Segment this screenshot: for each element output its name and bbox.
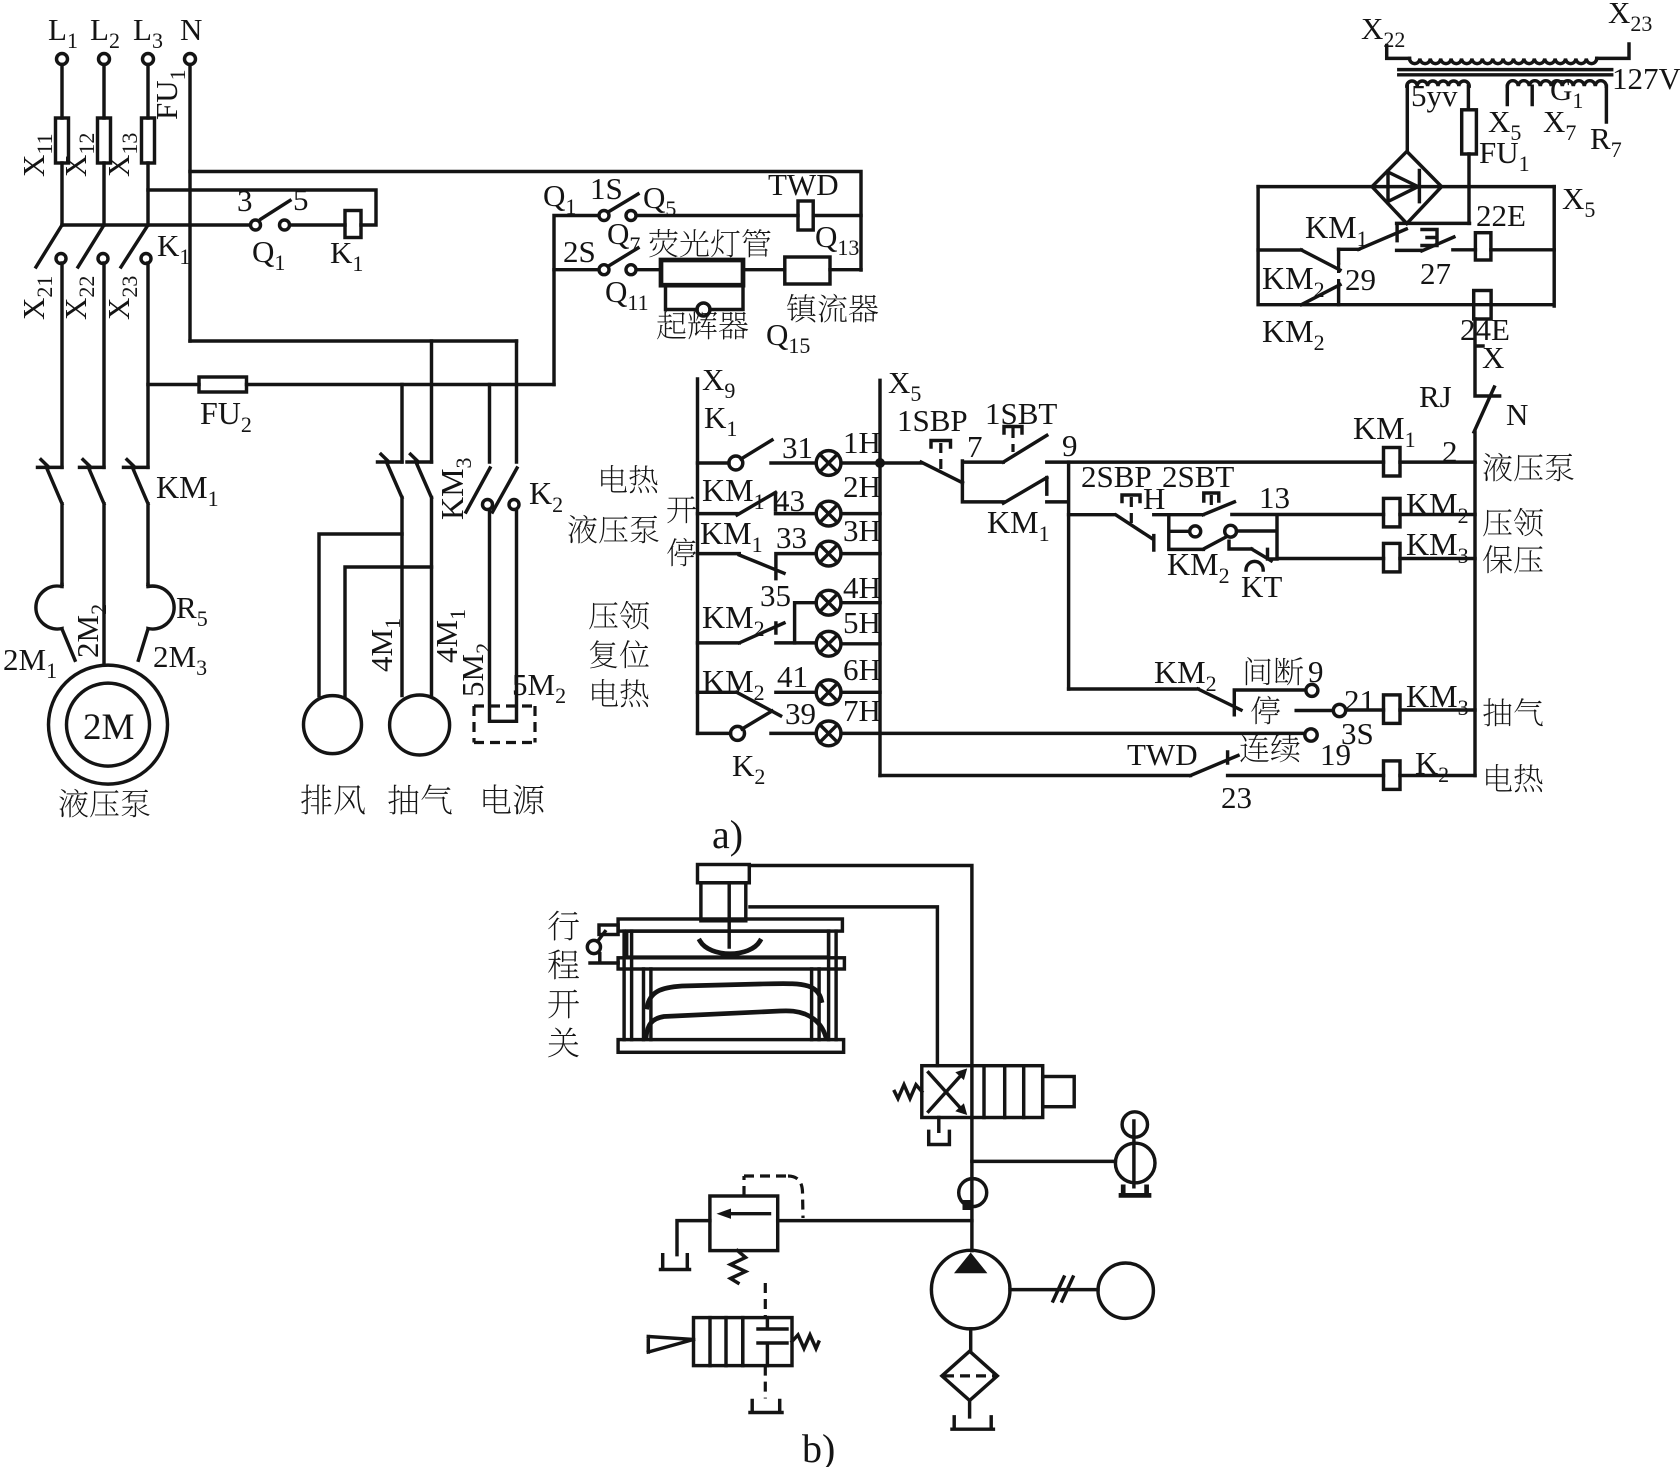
svg-text:31: 31: [782, 430, 813, 465]
svg-text:13: 13: [1259, 480, 1290, 515]
svg-text:21: 21: [1344, 683, 1375, 718]
svg-text:33: 33: [776, 520, 807, 555]
svg-text:29: 29: [1345, 262, 1376, 297]
svg-text:RJ: RJ: [1419, 379, 1452, 414]
svg-text:9: 9: [1308, 654, 1324, 689]
svg-text:41: 41: [777, 659, 808, 694]
svg-text:127V: 127V: [1612, 61, 1680, 96]
svg-text:1H: 1H: [843, 425, 881, 460]
svg-text:1SBT: 1SBT: [985, 396, 1057, 431]
svg-text:23: 23: [1221, 780, 1252, 815]
svg-text:2S: 2S: [563, 234, 596, 269]
svg-text:24E: 24E: [1460, 312, 1510, 347]
svg-text:TWD: TWD: [1127, 737, 1198, 772]
svg-text:b): b): [802, 1426, 835, 1467]
svg-text:5H: 5H: [843, 605, 881, 640]
svg-text:3: 3: [237, 183, 253, 218]
svg-text:2SBP: 2SBP: [1081, 459, 1152, 494]
svg-text:2H: 2H: [843, 469, 881, 504]
svg-text:a): a): [712, 812, 743, 857]
svg-text:27: 27: [1420, 256, 1451, 291]
svg-text:N: N: [1506, 397, 1528, 432]
svg-text:22E: 22E: [1476, 198, 1526, 233]
svg-text:19: 19: [1320, 737, 1351, 772]
svg-text:2M: 2M: [83, 707, 134, 748]
svg-text:N: N: [180, 12, 202, 47]
svg-text:7H: 7H: [843, 693, 881, 728]
svg-text:2: 2: [1442, 434, 1458, 469]
svg-text:5yv: 5yv: [1411, 78, 1458, 113]
svg-text:9: 9: [1062, 428, 1078, 463]
svg-text:1S: 1S: [590, 171, 623, 206]
svg-text:39: 39: [785, 696, 816, 731]
svg-text:2SBT: 2SBT: [1162, 459, 1234, 494]
svg-text:KT: KT: [1241, 569, 1282, 604]
svg-text:TWD: TWD: [768, 167, 839, 202]
svg-text:3H: 3H: [843, 513, 881, 548]
svg-text:43: 43: [774, 483, 805, 518]
svg-text:7: 7: [967, 429, 983, 464]
svg-text:35: 35: [760, 578, 791, 613]
svg-text:4H: 4H: [843, 570, 881, 605]
svg-text:1SBP: 1SBP: [897, 403, 968, 438]
svg-text:5: 5: [293, 182, 309, 217]
svg-text:6H: 6H: [843, 652, 881, 687]
